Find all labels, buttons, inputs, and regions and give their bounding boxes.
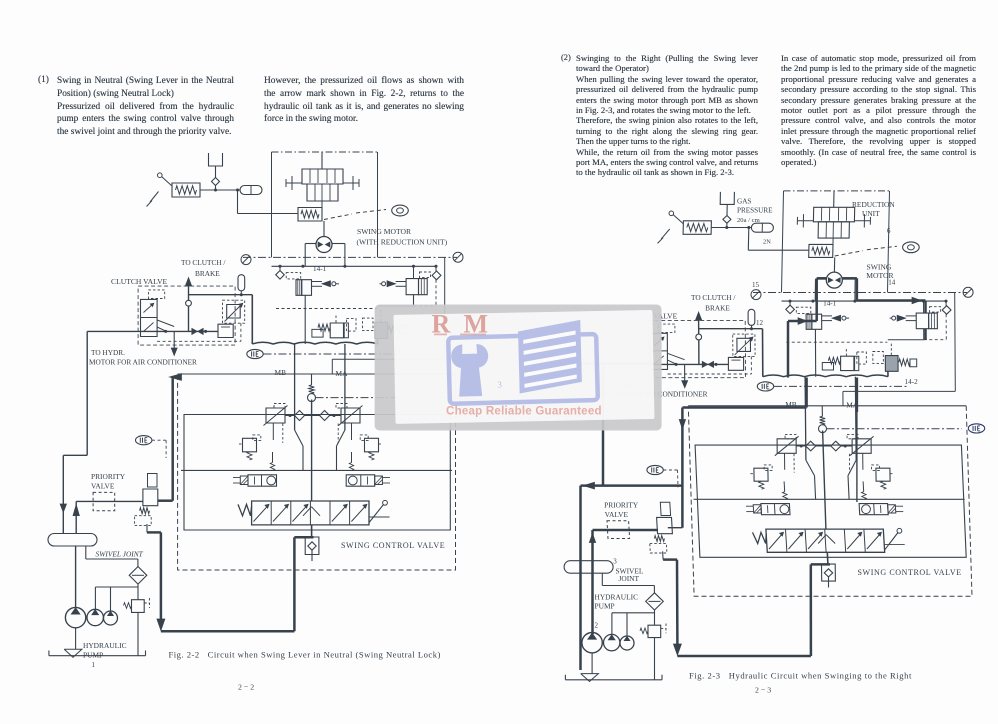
pressure control valve PC2 14-2 (fig 2-2) (363, 310, 407, 339)
wire clutch feed (fig 2-2) (87, 330, 218, 333)
hydraulic pump P1 (fig 2-2) (65, 546, 85, 649)
label GAS PRESSURE (fig 2-3) (737, 198, 773, 246)
bold flow to motor (fig 2-3) (788, 278, 826, 377)
oil tank symbol T1 (fig 2-3) (720, 192, 734, 216)
clutch valve box (fig 2-2) (138, 286, 235, 345)
anticavitation valve ACR (fig 2-2) (338, 424, 382, 461)
oil tank symbol T1 (fig 2-2) (209, 153, 223, 178)
wire motor circuit bus (fig 2-2) (272, 265, 438, 268)
wire pump riser (fig 2-2) (73, 501, 143, 533)
wire valve mid bus (fig 2-3) (694, 481, 965, 499)
port IE (fig 2-2) (247, 349, 398, 358)
label MB (fig 2-2) (275, 368, 287, 377)
bold flow valve rail (fig 2-3) (668, 408, 686, 528)
hydraulic pump P2 (fig 2-2) (87, 609, 103, 625)
bold priority out (fig 2-2) (158, 374, 182, 501)
check valve CV2 (fig 2-3) (786, 301, 811, 314)
pilot dash bus (fig 2-3) (786, 341, 887, 343)
wire pilot supply (fig 2-2) (200, 189, 240, 192)
wire motor circuit bus (fig 2-3) (782, 300, 948, 303)
reducing block RB1 (fig 2-2) (218, 324, 233, 337)
accumulator ACC1 (fig 2-2) (240, 186, 262, 195)
wire swivel to filter (fig 2-3) (602, 573, 654, 593)
bold flow motor return (fig 2-3) (843, 278, 926, 312)
label PRIORITY VALVE (fig 2-2) (91, 472, 126, 491)
pilot selector valve SVR (fig 2-2) (346, 475, 390, 486)
tank return port (fig 2-3) (822, 431, 836, 588)
label 3 (fig 2-3) (613, 558, 617, 566)
priority valve PRI1 (fig 2-2) (93, 474, 158, 526)
reducing block RB1 (fig 2-3) (728, 357, 743, 370)
wire enclosure right rail (fig 2-2) (332, 257, 444, 374)
wire clutch right drop (fig 2-2) (251, 295, 253, 344)
label SWING CONTROL VALVE (fig 2-2) (341, 541, 445, 550)
watermark emblem frame (448, 320, 598, 404)
pilot selector valve SVR (fig 2-3) (859, 504, 903, 515)
counterbalance valve CB2 (fig 2-2) (380, 266, 431, 294)
svg-text:VALVE: VALVE (91, 482, 115, 491)
watermark white card (393, 310, 654, 424)
label REDUCTION UNIT (fig 2-3) (852, 200, 895, 218)
svg-text:14-2: 14-2 (905, 378, 919, 386)
caption fig 2-2 (169, 650, 441, 660)
port IIE right (fig 2-2) (457, 393, 473, 402)
swing motor M1 (fig 2-2) (316, 237, 332, 253)
bold flow pump riser (fig 2-3) (589, 530, 658, 634)
watermark wrench icon (451, 344, 489, 397)
bold return line (fig 2-3) (663, 551, 830, 656)
suction filter F1 (fig 2-3) (646, 593, 664, 610)
label 6 (fig 2-3) (887, 227, 891, 235)
suction filter F1 (fig 2-2) (129, 567, 147, 585)
wire motor stem (fig 2-3) (833, 257, 835, 272)
wire clutch top (fig 2-2) (189, 293, 253, 296)
port IIE left (fig 2-3) (647, 465, 678, 487)
pilot accumulator ACC2 (fig 2-2) (238, 275, 245, 295)
anticavitation valve ACL (fig 2-2) (239, 424, 283, 461)
label 1 (fig 2-2) (92, 661, 96, 669)
bold flow MB top (fig 2-3) (682, 378, 806, 408)
svg-text:14: 14 (888, 278, 896, 286)
label SWIVEL JOINT (fig 2-3) (616, 566, 644, 583)
svg-text:GAS: GAS (737, 198, 751, 206)
clutch pilot dashes (fig 2-2) (157, 323, 241, 341)
swivel joint SW1 (fig 2-3) (564, 561, 613, 574)
label TO CLUTCH/BRAKE (fig 2-2) (181, 258, 226, 278)
hose coupling line (fig 2-2) (252, 342, 377, 344)
bold flow clutch feed (fig 2-3) (581, 363, 654, 366)
pressure gauge G2 (fig 2-3) (963, 287, 973, 297)
restrictor RS1 (fig 2-3) (733, 334, 755, 356)
bold flow left rail (fig 2-3) (581, 364, 683, 670)
label 14-2 (fig 2-3) (905, 378, 919, 386)
svg-text:MB: MB (275, 368, 287, 377)
svg-text:UNIT: UNIT (862, 209, 880, 218)
wire CB2 drop (fig 2-3) (888, 314, 947, 340)
pressure gauge G1 (fig 2-2) (241, 255, 251, 265)
svg-text:BRAKE: BRAKE (705, 304, 730, 313)
tank line (fig 2-2) (49, 649, 146, 657)
label 12 (fig 2-3) (756, 319, 764, 327)
svg-text:SWIVEL JOINT: SWIVEL JOINT (96, 550, 144, 559)
pilot selector valve SVL (fig 2-2) (233, 475, 277, 486)
label PRIORITY VALVE (fig 2-3) (604, 501, 639, 519)
label HYDRAULIC PUMP (fig 2-3) (595, 593, 639, 611)
port IIE right (fig 2-3) (968, 424, 984, 433)
svg-text:HYDRAULIC: HYDRAULIC (595, 593, 639, 602)
main spool directional valve DV1 (fig 2-2) (252, 501, 369, 525)
svg-text:REDUCTION: REDUCTION (852, 200, 895, 209)
port to clutch brake (fig 2-2) (185, 278, 191, 332)
pilot selector valve SVL (fig 2-3) (746, 504, 790, 515)
wire to brake valve (fig 2-2) (238, 190, 299, 214)
tank line (fig 2-3) (565, 674, 662, 682)
pressure gauge G1 (fig 2-3) (751, 290, 761, 300)
reduction unit gearbox RU1 (fig 2-3) (797, 191, 870, 245)
check valve CV3 (fig 2-2) (432, 266, 441, 280)
wire MA line (fig 2-3) (848, 377, 856, 500)
svg-text:2: 2 (595, 622, 599, 630)
svg-text:14-1: 14-1 (313, 265, 327, 273)
hydraulic pump P3 (fig 2-2) (104, 611, 118, 625)
wire clutch Y (fig 2-3) (667, 353, 684, 364)
hydraulic pump P1 (fig 2-3) (582, 633, 602, 674)
wire CB1 drop (fig 2-2) (304, 295, 306, 344)
svg-text:CLUTCH VALVE: CLUTCH VALVE (111, 277, 168, 286)
wire motor right port (fig 2-3) (842, 279, 855, 301)
hose coupling line (fig 2-3) (763, 375, 888, 377)
pressure control valve PC1 (fig 2-2) (312, 316, 356, 338)
spool lever (fig 2-2) (369, 500, 390, 522)
label MA (fig 2-3) (846, 401, 859, 410)
check valve CV4 (fig 2-2) (285, 411, 341, 421)
label 2 (fig 2-3) (595, 622, 599, 630)
label SWING CONTROL VALVE (fig 2-3) (858, 568, 962, 577)
shuttle valve SH1 (fig 2-3) (702, 361, 713, 367)
label MB (fig 2-3) (785, 400, 797, 409)
port IIE left (fig 2-2) (136, 436, 167, 458)
motor case enclosure E1 (fig 2-3) (782, 191, 890, 293)
spool lever (fig 2-3) (884, 528, 905, 550)
svg-text:SWING MOTOR: SWING MOTOR (357, 227, 412, 236)
swivel joint SW1 (fig 2-2) (48, 534, 97, 547)
parking brake valve BRV1 (fig 2-3) (809, 244, 833, 257)
pilot relief valve PRV1 (fig 2-2) (147, 173, 201, 207)
pressure gauge G2 (fig 2-2) (453, 252, 463, 262)
swing control valve inner box (fig 2-2) (184, 415, 450, 531)
svg-text:PUMP: PUMP (83, 651, 103, 660)
wire enclosure right rail (fig 2-3) (843, 293, 955, 406)
wire MB line (fig 2-3) (805, 377, 816, 500)
label 14-1 (fig 2-3) (823, 300, 837, 308)
clutch solenoid valve CLV1 (fig 2-2) (141, 290, 165, 337)
clutch valve box (fig 2-3) (648, 320, 745, 377)
wire motor stem (fig 2-2) (323, 221, 325, 237)
label SWING MOTOR (fig 2-3) (866, 263, 894, 281)
pilot accumulator ACC2 (fig 2-3) (748, 309, 755, 328)
port IE (fig 2-3) (757, 382, 908, 391)
hydraulic pump P3 (fig 2-3) (620, 636, 634, 650)
svg-text:JOINT: JOINT (619, 574, 640, 583)
wire motor left port (fig 2-3) (815, 279, 826, 301)
label TO CLUTCH/BRAKE (fig 2-3) (691, 293, 736, 313)
wire motor left port (fig 2-2) (305, 244, 316, 267)
wire filter drop (fig 2-2) (95, 584, 138, 656)
relief valve RVR (fig 2-3) (847, 434, 874, 469)
clutch solenoid valve CLV1 (fig 2-3) (651, 324, 675, 369)
counterbalance valve CB2 (fig 2-3) (890, 301, 941, 329)
svg-text:TO CLUTCH /: TO CLUTCH / (181, 258, 226, 267)
swing control valve outer box (fig 2-3) (688, 406, 972, 596)
svg-text:2 − 3: 2 − 3 (755, 686, 771, 695)
label 15 (fig 2-3) (752, 281, 760, 289)
wire valve mid bus (fig 2-2) (181, 452, 452, 470)
pilot dash bus (fig 2-2) (276, 308, 377, 310)
counterbalance valve CB1 (fig 2-2) (296, 280, 339, 296)
watermark gray frame (375, 305, 662, 431)
wire to brake valve (fig 2-3) (748, 228, 809, 251)
label TO HYDR MOTOR (fig 2-3) (600, 380, 708, 398)
svg-text:Fig. 2-2 Circuit when Swing: Fig. 2-2 Circuit when Swing Lever in Neu… (169, 650, 441, 660)
label SWING MOTOR (fig 2-2) (357, 227, 412, 236)
svg-text:12: 12 (756, 319, 764, 327)
accumulator ACC1 (fig 2-3) (751, 223, 773, 232)
tank spring port (fig 2-2) (308, 374, 316, 402)
bold return line (fig 2-2) (147, 524, 314, 631)
spool spring W (fig 2-2) (238, 504, 252, 515)
wire clutch right drop (fig 2-3) (762, 329, 764, 377)
swing control valve outer box (fig 2-2) (178, 374, 456, 570)
pilot gauge line (fig 2-3) (753, 292, 967, 294)
tank spring port (fig 2-3) (819, 406, 827, 433)
swing motor M1 (fig 2-3) (826, 272, 842, 288)
wire MA line (fig 2-2) (337, 344, 345, 470)
wire clutch top (fig 2-3) (699, 327, 763, 330)
check valve CV1 (fig 2-3) (723, 216, 731, 228)
page number 2-2 (238, 683, 254, 692)
svg-text:VALVE: VALVE (605, 510, 629, 519)
label TO HYDR MOTOR (fig 2-2) (89, 348, 197, 367)
wire pilot supply (fig 2-3) (711, 226, 751, 229)
relief valve RV2 (fig 2-3) (640, 624, 666, 638)
label CLUTCH VALVE (fig 2-3) (621, 311, 678, 320)
wire CB2 drop (fig 2-2) (378, 280, 437, 306)
pilot relief valve PRV1 (fig 2-3) (658, 211, 712, 243)
swing control valve inner box (fig 2-3) (695, 445, 966, 557)
label CLUTCH VALVE (fig 2-2) (111, 277, 168, 286)
reduction unit gearbox RU1 (fig 2-2) (286, 152, 359, 208)
svg-text:(WITH REDUCTION UNIT): (WITH REDUCTION UNIT) (357, 238, 448, 247)
svg-text:MOTOR FOR AIR CONDITIONER: MOTOR FOR AIR CONDITIONER (89, 358, 197, 367)
relief valve RV2 (fig 2-2) (124, 598, 150, 612)
pilot gauge line (fig 2-2) (243, 256, 457, 258)
svg-text:2N: 2N (763, 239, 771, 246)
anticavitation valve ACL (fig 2-3) (750, 454, 794, 489)
wire filter drop (fig 2-3) (612, 610, 655, 680)
svg-text:3: 3 (613, 558, 617, 566)
hydraulic pump P2 (fig 2-3) (604, 634, 620, 650)
shuttle valve SH1 (fig 2-2) (192, 328, 203, 334)
svg-text:PRESSURE: PRESSURE (737, 207, 773, 215)
pressure control valve PC1 (fig 2-3) (822, 349, 866, 371)
pilot line to IIE right (fig 2-3) (827, 428, 963, 430)
counterbalance valve CB1 (fig 2-3) (806, 314, 849, 329)
wire PC2 drop (fig 2-3) (887, 371, 889, 376)
svg-text:Cheap Reliable Guaranteed: Cheap Reliable Guaranteed (446, 405, 602, 418)
svg-text:PRIORITY: PRIORITY (604, 501, 639, 510)
caption fig 2-3 (689, 671, 912, 681)
wire swivel to filter (fig 2-2) (86, 546, 138, 567)
wire to air-cond motor (fig 2-3) (682, 364, 688, 387)
anticavitation valve ACR (fig 2-3) (849, 454, 893, 489)
svg-text:3: 3 (497, 379, 502, 389)
relief valve RVL (fig 2-2) (264, 404, 288, 441)
svg-text:SWING CONTROL VALVE: SWING CONTROL VALVE (858, 568, 962, 577)
pilot port B (fig 2-3) (835, 242, 920, 256)
restrictor RS1 (fig 2-2) (223, 300, 245, 323)
svg-text:Fig. 2-3 Hydraulic Circuit w: Fig. 2-3 Hydraulic Circuit when Swinging… (689, 671, 912, 681)
main spool directional valve DV1 (fig 2-3) (766, 529, 885, 552)
wire MB line (fig 2-2) (295, 344, 303, 470)
label 14-1 (fig 2-2) (313, 265, 327, 273)
pressure control valve PC2 14-2 (fig 2-3) (873, 344, 917, 372)
svg-text:BRAKE: BRAKE (195, 269, 220, 278)
svg-text:SWING CONTROL VALVE: SWING CONTROL VALVE (341, 541, 445, 550)
svg-text:15: 15 (752, 281, 760, 289)
wire CB1 drop (fig 2-3) (814, 329, 816, 376)
label SWIVEL JOINT (fig 2-2) (96, 550, 144, 559)
spool spring W (fig 2-3) (753, 532, 767, 543)
svg-text:HYDRAULIC: HYDRAULIC (83, 641, 127, 650)
check valve CV4 (fig 2-3) (796, 441, 852, 451)
motor case enclosure E1 (fig 2-2) (272, 152, 378, 257)
wire clutch Y (fig 2-2) (157, 320, 174, 331)
tank return port (fig 2-2) (305, 400, 319, 562)
wire PC2 drop (fig 2-2) (377, 339, 379, 345)
clutch pilot dashes (fig 2-3) (668, 356, 752, 374)
wire motor right port (fig 2-2) (332, 244, 345, 267)
svg-text:TO HYDR.: TO HYDR. (91, 348, 125, 357)
svg-text:MA: MA (336, 369, 349, 378)
bold flow MA return (fig 2-3) (857, 329, 926, 503)
parking brake valve BRV1 (fig 2-2) (298, 208, 322, 222)
check valve CV3 (fig 2-3) (942, 301, 951, 314)
wire to air-cond motor (fig 2-2) (171, 331, 177, 355)
label WITH REDUCTION UNIT (fig 2-2) (357, 238, 448, 247)
svg-text:PRIORITY: PRIORITY (91, 472, 126, 481)
svg-text:TO CLUTCH /: TO CLUTCH / (691, 293, 736, 302)
wire left rail (fig 2-2) (60, 331, 87, 533)
pilot port B (fig 2-2) (324, 205, 408, 219)
svg-text:PUMP: PUMP (595, 601, 615, 610)
watermark book icon (518, 320, 582, 394)
svg-text:1: 1 (92, 661, 96, 669)
port to clutch brake (fig 2-3) (695, 312, 701, 364)
relief valve RVL (fig 2-3) (775, 434, 799, 469)
label 14 (fig 2-3) (888, 278, 896, 286)
check valve CV2 (fig 2-2) (276, 266, 301, 279)
page number 2-3 (755, 686, 771, 695)
label HYDRAULIC PUMP (fig 2-2) (83, 641, 127, 660)
wire clutch feed (fig 2-3) (598, 363, 729, 366)
label MA (fig 2-2) (336, 369, 349, 378)
svg-text:20a / cm: 20a / cm (737, 217, 761, 224)
svg-text:6: 6 (887, 227, 891, 235)
svg-text:2 − 2: 2 − 2 (238, 683, 254, 692)
check valve CV1 (fig 2-2) (212, 178, 220, 191)
priority valve PRI1 (fig 2-3) (607, 502, 672, 553)
label 14-2 (fig 2-2) (394, 346, 408, 354)
pilot line to IIE right (fig 2-2) (316, 397, 452, 399)
svg-text:14-1: 14-1 (823, 300, 837, 308)
relief valve RVR (fig 2-2) (336, 404, 363, 441)
